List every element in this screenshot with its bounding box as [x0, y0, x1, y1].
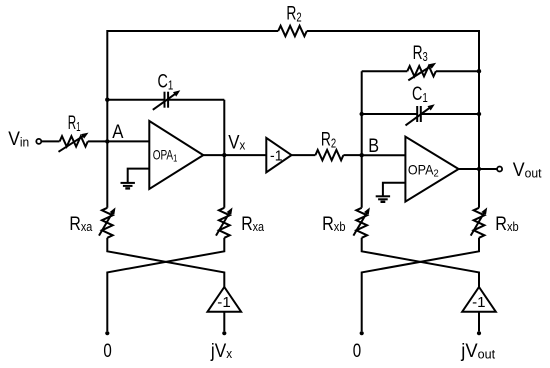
- capacitor C1 (left, variable): [153, 72, 181, 110]
- junction dot: C1 row to right rail: [477, 112, 481, 116]
- svg-text:Rxb: Rxb: [495, 214, 518, 235]
- resistor R3 (variable) with feedback row wires: [362, 43, 479, 81]
- wire left rail: [106, 30, 108, 208]
- terminal 0 (left): [105, 331, 109, 335]
- wire C1 feedback row (left section): [107, 99, 224, 101]
- inverter -1 (middle): [266, 138, 291, 172]
- wire Vx to inverter: [224, 154, 266, 156]
- junction dot: R3 row to right rail: [477, 69, 481, 73]
- wire: Rxb-left down and diagonal to inverter branch: [362, 238, 479, 287]
- svg-text:-1: -1: [472, 294, 485, 311]
- node Vx junction dot: [222, 153, 226, 157]
- svg-text:R1: R1: [68, 113, 81, 134]
- wire right rail: [478, 30, 480, 208]
- svg-text:Rxa: Rxa: [241, 214, 265, 235]
- terminal 0 (right): [360, 331, 364, 335]
- svg-text:0: 0: [353, 341, 361, 362]
- op-amp OPA2: [405, 137, 458, 202]
- node A junction dot: [105, 139, 109, 143]
- wire B to OPA2 input: [362, 154, 406, 156]
- wire: inverter base to jVout terminal: [478, 312, 480, 332]
- junction dot: C1 row to B rail: [360, 112, 364, 116]
- svg-text:Vin: Vin: [8, 129, 29, 150]
- svg-text:R2: R2: [286, 3, 301, 24]
- svg-text:Vout: Vout: [513, 160, 542, 181]
- wire R2 to node B: [343, 154, 361, 156]
- resistor Rxa (right, variable): [216, 207, 265, 237]
- svg-text:OPA2: OPA2: [408, 162, 439, 180]
- junction dot: C1 tap on left rail: [105, 98, 109, 102]
- terminal jVout: [477, 331, 481, 335]
- svg-text:R2: R2: [321, 130, 336, 151]
- svg-text:-1: -1: [270, 148, 283, 165]
- inverter -1 (bottom right): [462, 287, 496, 312]
- wire inverter to R2: [292, 154, 316, 156]
- junction dot: output node: [477, 167, 481, 171]
- resistor Rxa (left, variable): [69, 207, 115, 237]
- op-amp OPA1: [149, 121, 203, 189]
- svg-text:OPA1: OPA1: [153, 146, 178, 164]
- wire: Rxa-right down and diagonal to 0-terminal branch: [107, 238, 224, 331]
- wire Vx rail: [223, 100, 225, 208]
- terminal jVx: [222, 331, 226, 335]
- svg-text:Rxb: Rxb: [322, 214, 345, 235]
- svg-text:B: B: [368, 136, 379, 157]
- capacitor C1 (right, variable) with row wires: [362, 84, 479, 126]
- wire node-B rail: [361, 71, 363, 208]
- wire OPA1 output to Vx node: [203, 154, 224, 156]
- svg-text:R3: R3: [413, 43, 428, 64]
- resistor R2 (middle): [315, 130, 343, 161]
- svg-text:C1: C1: [412, 84, 428, 105]
- resistor R1 (variable): [59, 113, 89, 152]
- svg-text:Rxa: Rxa: [69, 214, 93, 235]
- terminal Vin: [36, 139, 41, 144]
- wire top rail right segment: [307, 30, 479, 32]
- wire Vin to R1: [41, 140, 59, 142]
- wire R1 to OPA1 input: [88, 140, 150, 142]
- wire OPA2 output: [459, 168, 498, 170]
- resistor R2 (top): [278, 3, 307, 36]
- ground (OPA2): [376, 183, 406, 202]
- wire: inverter base to jVx terminal: [223, 312, 225, 332]
- svg-text:jVout: jVout: [460, 341, 495, 362]
- svg-text:C1: C1: [158, 72, 174, 93]
- svg-text:Vx: Vx: [228, 133, 245, 154]
- resistor Rxb (left, variable): [322, 207, 370, 237]
- terminal Vout: [497, 167, 502, 172]
- inverter -1 (bottom left): [208, 287, 242, 312]
- svg-text:-1: -1: [217, 294, 230, 311]
- wire top rail left segment: [107, 30, 278, 32]
- svg-text:jVx: jVx: [210, 341, 233, 362]
- svg-text:A: A: [112, 122, 123, 143]
- wire: Rxa-left down and diagonal to inverter branch: [107, 238, 224, 287]
- svg-text:0: 0: [103, 341, 111, 362]
- ground (OPA1): [121, 169, 150, 189]
- node B junction dot: [360, 153, 364, 157]
- wire: Rxb-right down and diagonal to 0-terminal branch: [362, 238, 479, 331]
- resistor Rxb (right, variable): [471, 207, 519, 237]
